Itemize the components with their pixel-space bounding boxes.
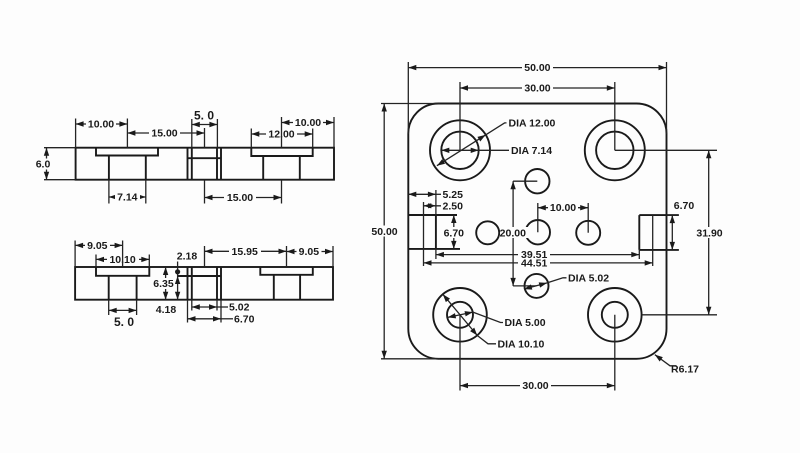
svg-text:10.00: 10.00 (88, 119, 114, 131)
section B center slot walls (188, 267, 222, 300)
small hole top center (525, 169, 549, 193)
dimension 4.18 (177, 276, 179, 300)
dimension 7.14 (109, 196, 146, 198)
section A left hole walls (109, 156, 146, 180)
section B right hole walls (274, 275, 300, 300)
dimension 5.0 bottom extension lines (109, 300, 137, 315)
svg-text:5.25: 5.25 (443, 189, 464, 201)
dimension 6.70 right extension lines (667, 215, 679, 250)
dimension 12.00 (251, 133, 312, 135)
hole bottom-right counterbore outer circle (588, 288, 642, 342)
dimension 31.90 (708, 150, 710, 314)
dimension 6.0 (46, 148, 48, 180)
leader DIA 5.00 (448, 312, 473, 317)
section B left hole walls (109, 276, 137, 300)
leader DIA 7.14 (441, 149, 478, 151)
notch left step line (423, 202, 425, 266)
section A left counterbore recess (96, 148, 158, 156)
dimension 15.95 (205, 250, 287, 252)
svg-text:6.0: 6.0 (36, 159, 51, 171)
svg-text:R6.17: R6.17 (671, 363, 699, 375)
dimension 30.00 top extension lines (460, 82, 615, 150)
dimension 10.10 extension lines (96, 255, 149, 268)
dimension 20.00 connector top (513, 180, 537, 182)
dimension 5.0 extension lines (192, 119, 218, 148)
plate outline (408, 104, 666, 359)
dimension 6.35 (165, 267, 167, 300)
dimension 9.05 right extension line (332, 246, 334, 267)
hole top-left counterbore outer circle (430, 120, 490, 180)
dimension 5.25 (408, 193, 436, 195)
dimension 6.0 extension lines (44, 148, 76, 180)
dimension 44.51 (424, 262, 653, 264)
svg-text:6.70: 6.70 (234, 313, 255, 325)
svg-text:2.18: 2.18 (177, 251, 198, 263)
dimension 2.18 tick line and arrow blob (177, 262, 179, 277)
dimension 10.00 left (76, 123, 128, 125)
svg-text:9.05: 9.05 (87, 240, 108, 252)
svg-text:DIA 7.14: DIA 7.14 (511, 145, 552, 157)
dimension 9.05 left (75, 244, 123, 246)
svg-text:4.18: 4.18 (156, 304, 177, 316)
svg-text:5. 0: 5. 0 (194, 109, 214, 123)
notch left edge (408, 215, 460, 249)
dimension 39.51 (436, 254, 639, 256)
dimension 39.51 extension lines (436, 249, 639, 259)
dimension 50.00 top extension lines (408, 62, 666, 134)
leader DIA 5.02 (524, 283, 547, 289)
svg-text:15.95: 15.95 (232, 246, 258, 258)
dimension 5.0 bottom (109, 309, 137, 311)
dimension 15.00 bottom (205, 197, 282, 199)
leader DIA 10.10 (443, 294, 478, 335)
dimension 10.00 mid extension lines (538, 203, 588, 233)
dimension 10.00 left extension lines (76, 119, 128, 148)
small hole middle right (576, 221, 600, 245)
leader DIA 12.00 (437, 135, 486, 166)
svg-text:30.00: 30.00 (522, 380, 548, 392)
section view B body outline (75, 267, 333, 300)
dimension 20.00 (512, 181, 514, 286)
svg-text:44.51: 44.51 (521, 258, 547, 270)
svg-text:5.02: 5.02 (229, 302, 250, 314)
hole top-right counterbore outer circle (585, 120, 645, 180)
section A slot step line (188, 157, 222, 159)
svg-text:10.00: 10.00 (295, 117, 321, 129)
dimension 20.00 connector bottom (513, 285, 536, 287)
hole top-left inner circle (441, 132, 478, 169)
hole bottom-left inner circle (447, 302, 473, 328)
section A right hole walls (263, 156, 300, 180)
notch right step line (652, 215, 654, 266)
svg-text:15.00: 15.00 (227, 192, 253, 204)
dimension 10.10 (96, 258, 149, 260)
hole bottom-right inner circle (602, 302, 628, 328)
section A right counterbore recess (251, 148, 312, 156)
dimension 6.70 right (671, 215, 673, 250)
svg-text:DIA 12.00: DIA 12.00 (509, 117, 556, 129)
dimension 7.14 extension lines (109, 180, 146, 204)
svg-text:31.90: 31.90 (696, 227, 722, 239)
dimension 10.00 right (282, 122, 335, 124)
dimension 10.00 right extension lines (282, 117, 335, 148)
section B slot step line (178, 275, 221, 277)
dimension 5.25 extension line (435, 190, 437, 215)
dimension 6.70 left notch (453, 215, 455, 249)
dimension 10.00 mid (538, 207, 588, 209)
dimension 15.95 extension lines (205, 246, 287, 267)
svg-text:15.00: 15.00 (151, 128, 177, 140)
small hole bottom center (525, 274, 549, 298)
dimension 15.00 bottom extension lines (205, 180, 282, 204)
dimension 30.00 bottom (460, 385, 615, 387)
section B right counterbore recess (260, 267, 313, 275)
svg-text:DIA 5.00: DIA 5.00 (505, 317, 546, 329)
section view A body outline (76, 148, 334, 180)
leader R6.17 (655, 355, 677, 366)
svg-text:6.70: 6.70 (674, 200, 695, 212)
dimension 50.00 left (383, 104, 385, 359)
svg-text:DIA 10.10: DIA 10.10 (498, 338, 545, 350)
small hole middle left (476, 221, 499, 244)
section B left counterbore recess (96, 267, 149, 276)
dimension 5.02 extension lines (192, 300, 217, 311)
hole bottom-left counterbore outer circle (433, 288, 487, 342)
dimension 6.70 extension lines (188, 300, 222, 323)
svg-text:DIA 5.02: DIA 5.02 (568, 272, 609, 284)
svg-text:9.05: 9.05 (299, 246, 320, 258)
dimension 31.90 connector top (615, 149, 717, 151)
svg-text:50.00: 50.00 (371, 226, 397, 238)
dimension 50.00 left extension lines (381, 104, 440, 359)
dimension 30.00 bottom extension lines (460, 315, 615, 391)
svg-text:30.00: 30.00 (524, 83, 550, 95)
small hole middle center (526, 220, 550, 244)
svg-text:5. 0: 5. 0 (114, 315, 134, 329)
dimension 50.00 top (408, 67, 666, 69)
svg-text:6.35: 6.35 (153, 278, 174, 290)
svg-text:7.14: 7.14 (117, 192, 138, 204)
dimension 5.0 (192, 124, 218, 126)
svg-text:50.00: 50.00 (524, 62, 550, 74)
svg-text:20.00: 20.00 (500, 227, 526, 239)
dimension 9.05 right (287, 251, 334, 253)
dimension 15.00 top extension line (204, 128, 206, 148)
svg-text:6.70: 6.70 (444, 227, 465, 239)
dimension 12.00 extension lines (251, 129, 312, 148)
dimension 31.90 connector bottom (642, 314, 717, 316)
dimension 30.00 top (460, 87, 615, 89)
section A center slot walls (188, 148, 222, 180)
dimension 9.05 left extension lines (75, 241, 123, 268)
hole top-right inner circle (596, 132, 633, 169)
dimension 15.00 top (127, 132, 204, 134)
svg-text:10.00: 10.00 (550, 202, 576, 214)
dimension 6.70 (188, 318, 222, 320)
svg-text:2.50: 2.50 (443, 200, 464, 212)
dimension 2.50 (424, 205, 442, 207)
notch right edge (639, 215, 679, 250)
dimension 5.02 (192, 306, 217, 308)
